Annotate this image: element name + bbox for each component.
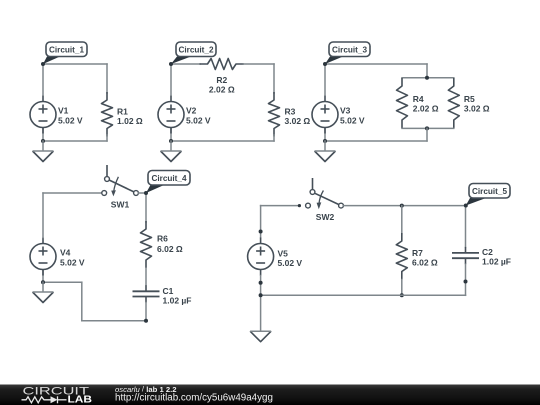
node junction R7 top [400, 204, 404, 208]
switch SW2 [312, 179, 314, 190]
voltage source V4 [42, 238, 44, 244]
wire bottom rail circuit 4 [82, 320, 146, 322]
resistor R3 [269, 92, 280, 137]
svg-text:http://circuitlab.com/cy5u6w49: http://circuitlab.com/cy5u6w49a4ygg [115, 392, 273, 403]
wire R7 top [401, 206, 403, 234]
wire R6 to C1 [145, 268, 147, 285]
resistor R1 [102, 92, 113, 137]
svg-text:6.02 Ω: 6.02 Ω [157, 244, 183, 254]
node dot V5 top [259, 230, 263, 234]
svg-text:5.02 V: 5.02 V [186, 116, 211, 126]
svg-text:R5: R5 [464, 94, 475, 104]
svg-text:V5: V5 [278, 249, 289, 259]
node junction bottom rail [259, 293, 263, 297]
ground circuit 5 [250, 331, 271, 342]
wire to V4 [43, 281, 82, 283]
svg-text:LAB: LAB [68, 394, 93, 405]
wire C1 bottom [145, 303, 147, 321]
node dot SW2 left [298, 204, 301, 207]
wire bottom circuit 1 [43, 140, 107, 142]
wire bottom drop [426, 128, 428, 141]
resistor R7 [396, 233, 407, 280]
node junction bottom bar [425, 126, 429, 130]
wire C2 top [465, 206, 467, 247]
node junction V5 bottom [259, 281, 263, 285]
wire top bar [402, 77, 454, 79]
svg-text:1.02 Ω: 1.02 Ω [117, 116, 143, 126]
svg-text:3.02 Ω: 3.02 Ω [464, 104, 490, 114]
svg-text:6.02 Ω: 6.02 Ω [412, 258, 438, 268]
svg-text:R4: R4 [413, 94, 424, 104]
wire R6 top [145, 193, 147, 222]
ground circuit 3 [324, 141, 326, 151]
node junction V2 bottom [169, 139, 173, 143]
capacitor C1 [145, 285, 147, 291]
svg-text:R3: R3 [285, 107, 296, 117]
node junction top bar [425, 76, 429, 80]
resistor R5 [448, 78, 459, 128]
svg-text:2.02 Ω: 2.02 Ω [413, 104, 439, 114]
wire top circuit 1 [43, 63, 107, 65]
svg-text:R2: R2 [216, 75, 227, 85]
svg-text:C2: C2 [482, 247, 493, 257]
wire bottom circuit 3 [325, 140, 427, 142]
wire V5 bottom to ground [260, 276, 262, 332]
svg-text:5.02 V: 5.02 V [60, 258, 85, 268]
resistor R2 [200, 59, 245, 70]
label Circuit_2 [171, 57, 191, 65]
wire top circuit 3 [325, 63, 427, 65]
svg-text:V3: V3 [340, 106, 351, 116]
wire left lower [42, 129, 44, 142]
svg-text:5.02 V: 5.02 V [278, 258, 303, 268]
ground circuit 1 [42, 141, 44, 151]
node dot C2 bottom [464, 280, 468, 284]
label Circuit_1 [43, 57, 60, 65]
wire right lower [106, 135, 108, 141]
svg-text:1.02 µF: 1.02 µF [163, 296, 192, 306]
svg-text:V2: V2 [186, 106, 197, 116]
voltage source V3 [324, 96, 326, 102]
ground circuit 2 [170, 141, 172, 151]
svg-text:V4: V4 [60, 248, 71, 258]
node junction V4 bottom [41, 280, 45, 284]
wire bottom bar [402, 127, 454, 129]
wire left upper [42, 64, 44, 95]
node junction V1 bottom [41, 139, 45, 143]
wire SW2 right to C2 node [343, 205, 465, 207]
wire left riser [81, 282, 83, 321]
wire left upper [324, 64, 326, 95]
wire bottom circuit 2 [171, 140, 274, 142]
svg-text:Circuit_4: Circuit_4 [151, 174, 186, 183]
svg-text:Circuit_3: Circuit_3 [332, 45, 367, 54]
svg-text:V1: V1 [58, 106, 69, 116]
resistor R6 [141, 221, 152, 268]
node junction R7 bottom [400, 293, 404, 297]
wire left upper [170, 64, 172, 95]
node junction C1 bottom [144, 319, 148, 323]
CircuitLab logo diode [51, 396, 58, 403]
node junction V3 bottom [323, 139, 327, 143]
voltage source V2 [170, 96, 172, 102]
svg-text:5.02 V: 5.02 V [340, 116, 365, 126]
wire top right circuit 2 [244, 63, 275, 65]
svg-text:R6: R6 [157, 234, 168, 244]
svg-text:SW2: SW2 [316, 212, 335, 222]
svg-text:3.02 Ω: 3.02 Ω [285, 116, 311, 126]
wire V4 top [42, 193, 44, 238]
ground circuit 4 [42, 282, 44, 292]
capacitor C2 [465, 247, 467, 253]
wire bottom rail circuit 5 [261, 294, 466, 296]
wire SW1 left [43, 192, 102, 194]
switch SW1 [106, 166, 108, 177]
svg-text:5.02 V: 5.02 V [58, 116, 83, 126]
wire V4 bottom [42, 270, 44, 283]
wire right lower [273, 135, 275, 141]
wire right upper [106, 64, 108, 93]
wire left lower [170, 129, 172, 142]
wire C2 bottom [465, 264, 467, 295]
wire R7 bottom [401, 280, 403, 296]
svg-text:C1: C1 [163, 286, 174, 296]
svg-text:Circuit_5: Circuit_5 [472, 187, 507, 196]
svg-text:Circuit_2: Circuit_2 [178, 45, 213, 54]
voltage source V5 [260, 238, 262, 244]
svg-text:1.02 µF: 1.02 µF [482, 257, 511, 267]
svg-text:2.02 Ω: 2.02 Ω [209, 85, 235, 95]
svg-text:R7: R7 [412, 248, 423, 258]
voltage source V1 [42, 96, 44, 102]
wire top left circuit 2 [171, 63, 200, 65]
wire SW1 right [138, 192, 146, 194]
svg-text:R1: R1 [117, 107, 128, 117]
CircuitLab logo resistor squiggle [22, 397, 51, 403]
svg-text:Circuit_1: Circuit_1 [49, 45, 84, 54]
label Circuit_3 [325, 57, 343, 65]
wire V5 top riser [260, 206, 262, 238]
wire right upper [273, 64, 275, 93]
wire SW2 left [261, 205, 298, 207]
wire top drop [426, 64, 428, 78]
label Circuit_5 [466, 198, 486, 206]
svg-text:SW1: SW1 [111, 200, 130, 210]
resistor R4 [397, 78, 408, 128]
wire left lower [324, 129, 326, 142]
label Circuit_4 [146, 185, 164, 193]
